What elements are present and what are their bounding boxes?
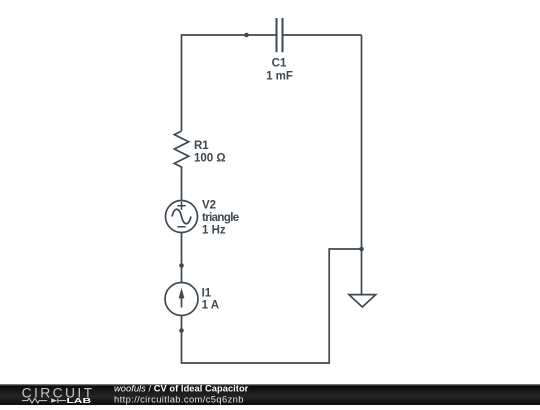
svg-text:LAB: LAB <box>67 398 92 405</box>
svg-text:http://circuitlab.com/c5q6znb: http://circuitlab.com/c5q6znb <box>114 393 244 404</box>
svg-text:woofuls / CV of Ideal Capacito: woofuls / CV of Ideal Capacitor <box>114 384 249 394</box>
svg-text:1 A: 1 A <box>202 299 219 311</box>
svg-text:R1: R1 <box>194 140 209 152</box>
svg-text:I1: I1 <box>202 287 212 299</box>
svg-text:triangle: triangle <box>202 212 239 224</box>
svg-text:1 Hz: 1 Hz <box>202 225 226 237</box>
svg-text:100 Ω: 100 Ω <box>194 152 226 164</box>
svg-text:1 mF: 1 mF <box>266 71 293 83</box>
svg-text:C1: C1 <box>272 58 287 70</box>
svg-text:V2: V2 <box>202 199 216 211</box>
